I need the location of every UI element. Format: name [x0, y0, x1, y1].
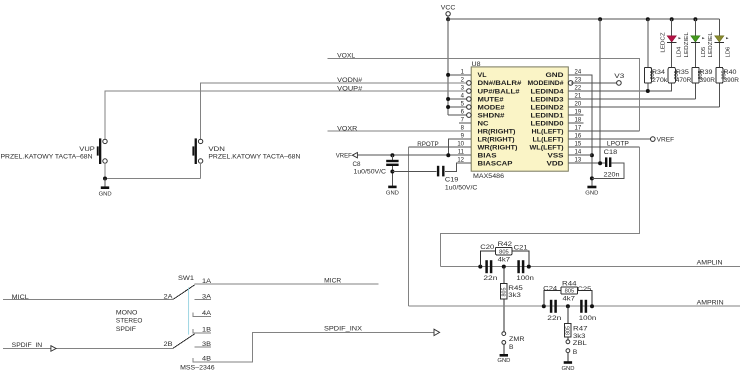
svg-text:GND: GND	[386, 191, 399, 197]
svg-text:PRZEL.KATOWY TACTA–68N: PRZEL.KATOWY TACTA–68N	[208, 154, 300, 161]
svg-text:220n: 220n	[604, 171, 620, 178]
wire MICR net from SW1 1A	[195, 278, 379, 285]
svg-text:805: 805	[502, 287, 508, 296]
wire pin14 VSS	[568, 154, 592, 156]
svg-text:LEDIND4: LEDIND4	[531, 88, 564, 95]
node V3 test point	[614, 73, 624, 85]
svg-text:SPDIF: SPDIF	[116, 326, 136, 333]
ground below VSS drop	[585, 187, 598, 197]
LED LD5 green LEDZIEL	[684, 32, 707, 57]
svg-text:LEDIND3: LEDIND3	[531, 96, 564, 103]
capacitor C19 1u0/50V/C	[392, 163, 477, 191]
svg-text:MONO: MONO	[116, 309, 137, 316]
node AMPLIN-C20	[478, 265, 482, 269]
svg-text:WR(RIGHT): WR(RIGHT)	[478, 145, 518, 152]
node AMPLIN-R45	[502, 265, 506, 269]
svg-text:HL(LEFT): HL(LEFT)	[532, 128, 564, 135]
node VREF-pin9	[446, 153, 450, 157]
svg-text:VCC: VCC	[441, 5, 456, 12]
capacitor C24 22n	[543, 285, 562, 322]
U8 right pin names	[528, 72, 565, 167]
svg-text:100n: 100n	[579, 315, 597, 322]
svg-text:100n: 100n	[516, 275, 534, 282]
resistor R35 470R	[668, 67, 691, 84]
wire pin22 LEDIND4 to R34/R35	[568, 88, 671, 91]
U8 left pin numbers 1-12	[457, 69, 464, 163]
svg-text:V3: V3	[614, 73, 624, 80]
svg-text:LEDIND0: LEDIND0	[531, 120, 564, 127]
svg-text:PRZEL.KATOWY TACTA–68N: PRZEL.KATOWY TACTA–68N	[1, 154, 93, 161]
node rail-LD5	[693, 17, 697, 21]
SW1 contact 1B	[193, 326, 211, 333]
wire VCC rail	[448, 18, 719, 20]
svg-text:LR(RIGHT): LR(RIGHT)	[478, 136, 515, 143]
svg-text:21: 21	[575, 94, 582, 100]
svg-text:STEREO: STEREO	[116, 318, 142, 325]
node pin4-VCC	[446, 97, 450, 101]
svg-text:GND: GND	[562, 366, 575, 372]
svg-text:VREF: VREF	[336, 153, 352, 160]
svg-text:MUTE#: MUTE#	[478, 96, 504, 103]
svg-text:VDN: VDN	[208, 146, 225, 153]
wire switch commons to ground	[105, 178, 201, 180]
resistor R42 4k7 bypass	[480, 241, 529, 267]
svg-text:GND: GND	[99, 191, 112, 197]
svg-text:805: 805	[565, 289, 575, 295]
wire SPDIF_IN net to SW1 2B	[3, 342, 173, 351]
resistor R45 3k3	[501, 267, 524, 332]
svg-text:390R: 390R	[700, 77, 716, 84]
node AMPRIN-R44 right	[590, 304, 594, 308]
svg-text:LD5: LD5	[701, 47, 707, 58]
wire VOXR net pin8	[328, 125, 472, 132]
svg-text:C21: C21	[514, 245, 528, 252]
svg-text:AMPLIN: AMPLIN	[697, 259, 723, 266]
wire pin10 WR(RIGHT) RPOTP to AMPRIN	[408, 141, 471, 306]
resistor R34 270k	[644, 67, 668, 84]
svg-text:BIAS: BIAS	[478, 153, 498, 160]
wire LD5 column	[694, 19, 696, 67]
capacitor C18 220n	[592, 149, 624, 179]
switch SW1 MSS-2346	[178, 275, 215, 371]
node VCC junction	[446, 17, 450, 21]
node rail-VDD	[598, 17, 602, 21]
resistor R47 3k3	[565, 306, 588, 340]
wire VOUP# net pin3 to VUP	[105, 85, 467, 139]
svg-text:390R: 390R	[724, 77, 740, 84]
svg-text:R34: R34	[652, 69, 665, 76]
svg-text:WL(LEFT): WL(LEFT)	[530, 145, 564, 152]
node rail-LD4	[670, 17, 674, 21]
wire LD4 column	[671, 19, 673, 67]
node C18 return	[590, 176, 594, 180]
wire VDD drop	[599, 19, 601, 163]
svg-text:SW1: SW1	[178, 275, 194, 282]
svg-text:1B: 1B	[202, 326, 211, 333]
ground below C8	[386, 187, 399, 197]
U8 inversion bubbles pins 2-6	[467, 81, 472, 118]
node AMPLIN-R42 right	[527, 265, 531, 269]
node pin5-VCC	[446, 105, 450, 109]
svg-text:VL: VL	[478, 72, 487, 79]
svg-text:2B: 2B	[164, 341, 173, 348]
svg-text:GND: GND	[546, 72, 564, 79]
resistor R44 4k7 bypass	[544, 280, 592, 306]
svg-text:LD4: LD4	[676, 47, 682, 58]
wire SPDIF_INX net with arrow	[324, 326, 440, 336]
svg-text:R47: R47	[573, 326, 588, 333]
svg-text:MICR: MICR	[324, 278, 341, 285]
svg-text:C25: C25	[577, 286, 591, 293]
svg-text:GND: GND	[497, 358, 510, 364]
svg-text:B: B	[509, 344, 514, 351]
wire pin20 LEDIND2 to R40	[568, 106, 719, 108]
ground below ZBL	[562, 363, 575, 372]
svg-text:UP#/BALL#: UP#/BALL#	[478, 88, 520, 95]
power VCC	[441, 5, 456, 20]
op-amp U8 MAX5486 body	[471, 61, 568, 180]
svg-text:HR(RIGHT): HR(RIGHT)	[478, 128, 516, 135]
SW1 pole A arm	[173, 285, 194, 299]
svg-text:1A: 1A	[202, 278, 212, 285]
capacitor C20 22n	[480, 244, 498, 282]
svg-text:470R: 470R	[676, 77, 692, 84]
wire LD6 column	[718, 19, 720, 67]
U8 pin 7 NC stub	[459, 122, 471, 124]
SW1 contact 3B	[195, 341, 211, 348]
svg-text:MODE#: MODE#	[478, 104, 505, 111]
svg-text:LEDIND1: LEDIND1	[531, 112, 564, 119]
node R34-LEDIND4	[646, 89, 650, 93]
svg-text:VSS: VSS	[548, 153, 565, 160]
svg-text:22n: 22n	[547, 315, 561, 322]
svg-text:DN#/BALR#: DN#/BALR#	[478, 80, 522, 87]
svg-text:LEDZIEL: LEDZIEL	[684, 32, 690, 57]
SW1 pole B arm	[173, 334, 194, 348]
svg-text:R35: R35	[676, 69, 689, 76]
svg-text:R39: R39	[700, 69, 713, 76]
ground below switches	[99, 188, 112, 198]
svg-text:MSS–2346: MSS–2346	[180, 364, 215, 371]
jumper ZMR	[502, 332, 525, 354]
switch VDN PRZEL.KATOWY TACTA-68N	[192, 138, 300, 178]
svg-text:LEDCZ: LEDCZ	[661, 32, 667, 52]
node VREF-C8	[390, 153, 394, 157]
svg-text:R45: R45	[508, 285, 523, 292]
node AMPRIN-R47	[566, 304, 570, 308]
SW1 contact 4A	[193, 310, 212, 317]
wire pin19 LEDIND1 stub	[568, 114, 583, 116]
capacitor C8 1u0/50V/C	[353, 155, 399, 186]
wire pin24 GND to ground drop	[568, 75, 592, 186]
resistor R39 390R	[692, 67, 715, 84]
SW1 position labels MONO STEREO SPDIF	[116, 309, 142, 332]
svg-text:NC: NC	[478, 120, 489, 127]
node rail-R34	[646, 17, 650, 21]
wire AMPRIN net	[408, 300, 740, 307]
wire VODN# net pin2 to VDN	[201, 77, 467, 139]
SW1 contact 3A	[195, 293, 212, 300]
U8 left pin names	[478, 72, 522, 167]
capacitor C21 100n	[514, 245, 535, 283]
wire pin9 LR(RIGHT) to VREF line	[448, 139, 471, 155]
wire VOXL net	[328, 52, 640, 131]
wire pin17 HL(LEFT) from VOXL	[568, 130, 639, 132]
LED LD6 green LEDZIEL	[708, 32, 732, 57]
SW1 contact 4B to SPDIF_INX	[193, 332, 434, 362]
svg-text:C18: C18	[604, 149, 618, 156]
node VDD-VCCdrop	[598, 161, 602, 165]
svg-text:LEDZIEL: LEDZIEL	[708, 32, 714, 57]
node AMPRIN-C24	[542, 304, 546, 308]
U8 pin stubs 1,4,5,6 from VCC	[448, 75, 471, 115]
node pin1-VCC	[446, 73, 450, 77]
wire pin18 LEDIND0 stub	[568, 122, 583, 124]
svg-text:270k: 270k	[652, 77, 668, 84]
jumper ZBL	[566, 340, 587, 361]
switch VUP PRZEL.KATOWY TACTA-68N	[1, 138, 108, 178]
U8 inversion bubble pin 23	[568, 81, 573, 86]
svg-text:C20: C20	[480, 244, 494, 251]
svg-text:GND: GND	[585, 191, 598, 197]
svg-text:805: 805	[566, 326, 572, 335]
LED LD4 red LEDCZ	[661, 32, 683, 57]
U8 right pin numbers 24-13	[575, 69, 582, 163]
wire pin16 LL(LEFT) to VREF point	[568, 138, 650, 140]
svg-text:R44: R44	[562, 280, 577, 287]
wire pin21 LEDIND3 to R39	[568, 98, 695, 100]
wire pin15 WL(LEFT) LPOTP to AMPLIN	[440, 141, 639, 267]
wire R34 column	[647, 19, 649, 67]
wire pin23 MODEIND# to V3	[571, 82, 616, 84]
svg-text:AMPRIN: AMPRIN	[697, 300, 724, 307]
svg-text:LEDIND2: LEDIND2	[531, 104, 564, 111]
svg-text:VUP: VUP	[79, 146, 95, 153]
svg-text:C8: C8	[353, 161, 361, 168]
node VUP-GND junction	[103, 177, 107, 181]
capacitor C25 100n	[577, 286, 596, 322]
node VREF terminal	[651, 137, 675, 144]
svg-text:R40: R40	[724, 69, 737, 76]
svg-text:BIASCAP: BIASCAP	[478, 161, 514, 168]
svg-text:1u0/50V/C: 1u0/50V/C	[354, 168, 387, 175]
svg-text:C24: C24	[543, 285, 557, 292]
svg-text:VREF: VREF	[657, 137, 675, 144]
wire AMPLIN net	[440, 259, 740, 266]
svg-text:B: B	[573, 349, 578, 356]
svg-text:SHDN#: SHDN#	[478, 112, 505, 119]
wire VCC vertical to pins 1,4,5,6	[447, 19, 449, 115]
ground below ZMR	[497, 355, 510, 364]
wire MICL net to SW1 2A	[3, 294, 173, 301]
svg-text:MAX5486: MAX5486	[473, 173, 504, 180]
svg-text:R42: R42	[498, 241, 513, 248]
port VREF input	[336, 153, 471, 160]
svg-text:4k7: 4k7	[563, 296, 576, 303]
node C8-C19-GND	[390, 170, 394, 174]
svg-text:C19: C19	[445, 177, 459, 184]
svg-text:U8: U8	[472, 61, 481, 68]
resistor R40 390R	[716, 67, 739, 84]
svg-text:22n: 22n	[483, 275, 497, 282]
wire pin13 VDD to C18	[568, 162, 605, 164]
svg-text:ZMR: ZMR	[509, 336, 525, 343]
svg-text:3k3: 3k3	[508, 292, 521, 299]
svg-text:SPDIF_INX: SPDIF_INX	[324, 326, 363, 333]
svg-text:2A: 2A	[164, 293, 174, 300]
svg-text:1u0/50V/C: 1u0/50V/C	[445, 184, 478, 191]
node pin14-VSS ground	[590, 153, 594, 157]
svg-text:ZBL: ZBL	[573, 340, 587, 347]
svg-text:4k7: 4k7	[498, 256, 511, 263]
svg-text:LPOTP: LPOTP	[607, 141, 629, 148]
SW1 mechanical link	[188, 288, 190, 335]
svg-text:MODEIND#: MODEIND#	[528, 80, 564, 87]
svg-text:LD6: LD6	[726, 47, 732, 58]
svg-text:LL(LEFT): LL(LEFT)	[533, 136, 564, 143]
svg-text:VDD: VDD	[547, 161, 564, 168]
svg-text:805: 805	[499, 249, 509, 255]
